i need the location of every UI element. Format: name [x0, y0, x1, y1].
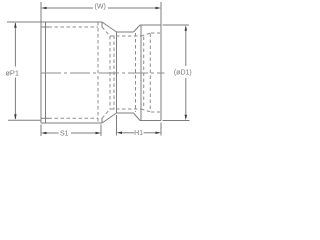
H1 right arrow: [156, 132, 162, 135]
hidden thread bore end: [143, 37, 145, 109]
svg-text:(W): (W): [95, 3, 106, 10]
S1 extension line left: [40, 125, 42, 137]
hidden socket end: [97, 22, 99, 123]
hidden cone top: [102, 27, 110, 36]
socket mouth inner edge: [45, 22, 47, 123]
S1 right arrow: [96, 132, 102, 135]
hidden neck vertical 2: [113, 36, 115, 110]
neck top edge: [117, 31, 134, 33]
hidden socket bore bottom: [49, 117, 99, 119]
H1 dimension line: [122, 132, 134, 134]
hidden pocket end: [149, 34, 151, 112]
hidden cone bottom: [102, 109, 110, 118]
collar chamfer junction edge: [140, 25, 142, 121]
hidden collar chamfer bottom: [141, 109, 151, 112]
collar bottom edge: [140, 120, 161, 122]
cone top: [102, 22, 117, 32]
W dimension line: [46, 7, 93, 9]
body bottom edge: [41, 122, 102, 124]
hidden neck bore bottom: [110, 108, 141, 110]
collar top edge: [140, 24, 161, 26]
hidden pocket top: [151, 32, 160, 34]
svg-text:(øD1): (øD1): [174, 70, 192, 77]
øD1 up arrow: [185, 25, 188, 31]
H1 extension line left: [116, 115, 118, 136]
øD1 dimension line: [185, 28, 187, 67]
S1 dimension line: [46, 132, 59, 134]
S1 left arrow: [41, 132, 47, 135]
øP1 dimension line: [14, 23, 16, 67]
svg-text:H1: H1: [134, 130, 143, 137]
øD1 extension line bottom: [163, 120, 190, 122]
W left arrow: [41, 7, 47, 10]
socket end shoulder top: [101, 22, 103, 28]
hidden socket bore top: [49, 26, 99, 28]
hidden neck bore top: [110, 35, 141, 37]
H1 extension line right: [160, 123, 162, 136]
collar chamfer top: [134, 25, 141, 32]
centerline: [41, 72, 165, 74]
hidden neck vertical 1: [109, 36, 111, 109]
øD1 extension line top: [163, 24, 190, 26]
W right arrow: [156, 7, 162, 10]
cone-neck junction edge: [116, 32, 118, 113]
H1 left arrow: [117, 132, 123, 135]
body top edge + øP1 top extension line: [7, 21, 102, 23]
cone bottom: [102, 113, 117, 123]
hidden pocket bottom: [151, 111, 160, 113]
socket mouth chamfer edge bottom: [42, 117, 49, 119]
øP1 up arrow: [14, 22, 17, 28]
svg-text:S1: S1: [60, 130, 69, 137]
socket end shoulder bottom: [101, 118, 103, 123]
neck bottom edge: [117, 112, 134, 114]
body left face + W left extension line: [40, 2, 42, 123]
øP1 down arrow: [14, 114, 17, 120]
collar chamfer bottom: [134, 113, 141, 121]
right end face + W right extension line: [160, 2, 162, 121]
hidden collar chamfer top: [141, 33, 151, 36]
S1 extension line right: [100, 125, 102, 137]
øD1 down arrow: [185, 115, 188, 121]
hidden thread root line: [135, 33, 137, 112]
svg-text:øP1: øP1: [5, 68, 19, 77]
socket mouth chamfer edge top: [42, 26, 49, 28]
øP1 bottom extension line: [8, 119, 41, 121]
